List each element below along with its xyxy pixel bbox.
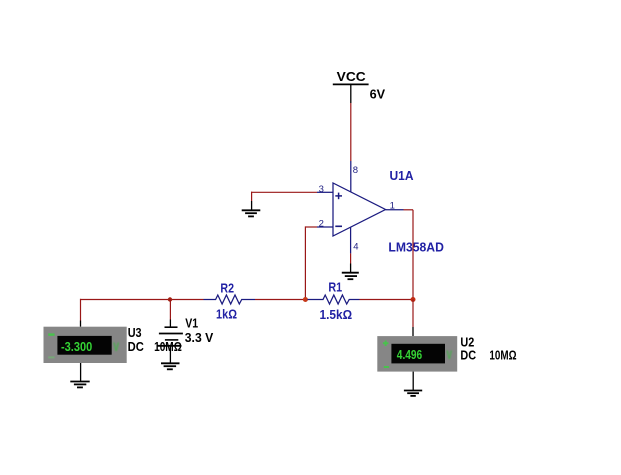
svg-text:10MΩ: 10MΩ xyxy=(489,348,516,363)
svg-text:10MΩ: 10MΩ xyxy=(154,339,182,354)
ground at pin 4 xyxy=(342,273,359,280)
svg-text:-3.300: -3.300 xyxy=(61,339,92,354)
svg-text:4.496: 4.496 xyxy=(397,347,422,362)
junction node A (R2/R1/feedback) xyxy=(303,297,308,302)
svg-text:3.3 V: 3.3 V xyxy=(185,330,214,345)
pin 1 stub xyxy=(386,209,404,211)
pin 3 stub xyxy=(317,191,333,193)
wire ground to pin 3 xyxy=(252,192,317,211)
wire pin 2 feedback to node A xyxy=(305,226,317,299)
wire U2 to ground xyxy=(412,372,414,391)
multimeter U2 xyxy=(377,336,457,372)
svg-text:3: 3 xyxy=(319,184,324,195)
pin 4 stub xyxy=(350,227,352,253)
wire net U3 to R2 xyxy=(81,299,204,301)
svg-text:DC: DC xyxy=(460,348,476,363)
svg-text:DC: DC xyxy=(128,339,145,354)
ground at pin 3 input xyxy=(242,210,261,216)
svg-text:VCC: VCC xyxy=(337,69,367,84)
svg-text:U1A: U1A xyxy=(390,168,415,183)
junction node V1 xyxy=(168,297,172,301)
svg-text:V: V xyxy=(447,350,453,362)
multimeter U3 xyxy=(44,327,127,363)
svg-text:6V: 6V xyxy=(370,86,386,101)
svg-text:1: 1 xyxy=(390,201,395,212)
svg-text:R2: R2 xyxy=(220,280,234,295)
pin 8 stub xyxy=(350,161,352,192)
wire R1 to node B xyxy=(360,299,414,301)
svg-text:1.5kΩ: 1.5kΩ xyxy=(320,307,353,322)
svg-text:V: V xyxy=(113,340,119,354)
wire R2 to node A xyxy=(255,299,305,301)
svg-text:R1: R1 xyxy=(328,280,342,295)
wire node B to U2 xyxy=(412,300,414,337)
wire U3 to ground xyxy=(80,363,82,382)
svg-text:8: 8 xyxy=(353,165,358,176)
ground below U2 xyxy=(404,391,422,396)
svg-text:2: 2 xyxy=(319,219,324,230)
wire net to V1 xyxy=(169,300,171,327)
wire output pin 1 to node B xyxy=(404,210,414,300)
junction node B (R1/output/U2) xyxy=(411,297,416,302)
pin 2 stub xyxy=(317,226,333,228)
wire net to U3 xyxy=(80,299,82,327)
svg-text:U3: U3 xyxy=(128,325,142,340)
ground below V1 xyxy=(161,363,180,369)
svg-text:4: 4 xyxy=(353,242,358,253)
ground below U3 xyxy=(70,382,89,388)
wire VCC to U1A pin 8 xyxy=(350,84,352,161)
resistor R2 xyxy=(204,295,256,304)
op-amp U1A xyxy=(333,183,386,236)
battery V1 xyxy=(158,327,183,363)
wire pin 4 to ground xyxy=(350,253,352,272)
svg-text:V1: V1 xyxy=(185,316,198,331)
power symbol VCC xyxy=(333,69,369,84)
resistor R1 xyxy=(308,295,360,304)
svg-text:1kΩ: 1kΩ xyxy=(216,306,237,321)
svg-text:LM358AD: LM358AD xyxy=(388,240,444,255)
